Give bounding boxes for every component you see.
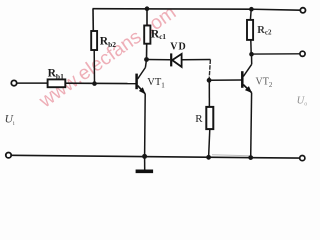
node: VT2 emitter bottom junction [248,155,253,160]
wire: diode feed from collector node [147,59,171,61]
wire: node B to VT2 base [209,79,242,81]
wire: output node up to Rc2 [250,40,252,54]
wire: node down to VT1 collector [145,60,146,68]
resistor R [206,107,213,129]
terminal: top-right supply terminal [300,8,305,13]
wire: rail down-lead to Rb2 [92,9,94,31]
wire: R to bottom rail [209,129,210,157]
wire: corner down to node B [209,60,210,81]
wire: Rc1 to collector node [146,44,148,60]
node: R bottom junction [206,155,211,160]
wire: Rb1 to base node of VT1 [65,82,136,84]
wire: scan smudge along rail [212,155,249,156]
wire: VT1 emitter to ground rail [144,94,147,157]
diode VD [170,41,186,67]
terminal: bottom-left terminal [6,153,11,158]
wire: bottom rail [11,155,299,158]
node: rail junction for Rc2 [249,7,254,12]
node: emitter/ground junction [142,154,147,159]
terminal: bottom-right terminal [300,156,305,161]
wire: Rc2 to rail [249,9,252,20]
terminal: input terminal top-left [11,80,16,85]
resistor Rc2 [247,20,253,40]
wire: Rb2 to base node [93,50,95,84]
node: collector node of VT1 / diode tap [144,57,149,62]
terminal: output top terminal [300,51,305,56]
wire: VT2 collector up to output node [251,54,253,64]
resistor Rb1 [48,79,66,87]
resistor Rb2 [91,31,97,50]
node B: diode / R / VT2 base junction [207,78,212,83]
wire: top supply rail [93,9,301,11]
wire: node B down to R [208,80,210,107]
node: rail junction for Rc1 [145,6,150,11]
node: base node junction (Rb2 join) [92,81,97,86]
node: output node at collector [249,52,254,57]
wire: diode to right corner [182,59,211,61]
resistor Rc1 [144,26,150,44]
svg-text:VD: VD [170,41,186,52]
wire: input to Rb1 [17,82,48,84]
wire: rail to Rc1 [146,9,148,26]
wire: output node to output terminal [252,53,300,55]
wire: VT2 emitter to bottom rail [250,93,253,158]
transistor VT2 [242,64,273,93]
svg-text:R: R [195,113,203,125]
ground [136,156,154,171]
transistor VT1 [137,68,166,95]
